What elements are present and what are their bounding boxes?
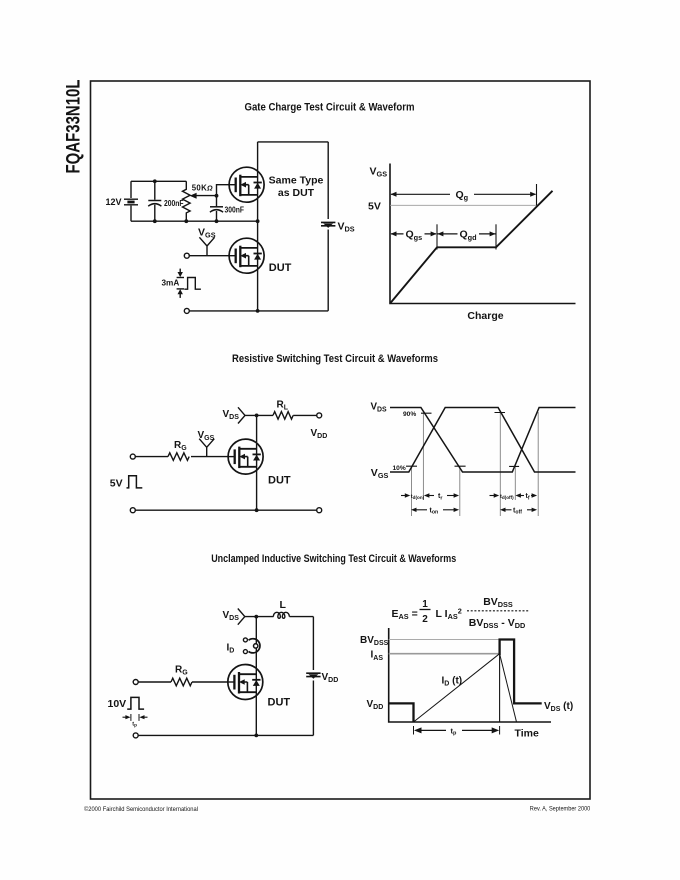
wire: drain bus [255, 617, 257, 736]
5V pulse symbol [127, 476, 143, 488]
svg-text:Rev. A, September 2000: Rev. A, September 2000 [530, 806, 591, 813]
junction dots bias rails [153, 179, 260, 312]
current source 3mA annotation [177, 269, 201, 298]
battery V_DS on right bus [321, 222, 335, 228]
svg-text:DUT: DUT [269, 262, 292, 274]
svg-text:tp: tp [132, 722, 137, 728]
3mA arrowheads [178, 272, 183, 277]
current loop ID around drain bus [249, 639, 260, 653]
V_DS probe fork [238, 407, 245, 423]
wire: inductor to right bus [289, 616, 313, 618]
t_p span arrow [416, 729, 497, 731]
wire: pot wiper to gate of upper MOSFET [217, 185, 230, 196]
MOSFET Q2 DUT [229, 238, 265, 273]
terminal gate input [184, 253, 189, 258]
MOSFET DUT circuit3 [227, 665, 262, 700]
MOSFET Q1 same type as DUT [229, 167, 265, 202]
axes [390, 164, 576, 304]
svg-text:300nF: 300nF [225, 204, 245, 214]
10% tick marks [406, 465, 519, 467]
pot wiper arrowhead [190, 193, 197, 199]
terminal bottom input [184, 308, 189, 313]
svg-text:5V: 5V [110, 477, 123, 489]
resistor RG zigzag [171, 678, 192, 686]
junction dot drain node [254, 615, 258, 619]
I_D(t) ramp [414, 654, 500, 722]
svg-text:1: 1 [422, 599, 428, 610]
battery 12V [124, 199, 138, 205]
svg-text:L: L [280, 599, 287, 611]
tick Qgd [495, 224, 497, 249]
wire: bottom rail [135, 509, 317, 511]
IAS level line [389, 653, 500, 655]
pulse left edge thin [499, 654, 501, 722]
gate charge curve [390, 191, 553, 304]
svg-text:10V: 10V [108, 698, 127, 710]
svg-text:FQAF33N10L: FQAF33N10L [64, 79, 85, 173]
battery VDD on right bus [306, 673, 320, 679]
t_r arrows [424, 493, 430, 497]
V_DS(t) thick trace [389, 640, 542, 723]
Qg span arrow [391, 193, 536, 195]
Qgs span arrow [391, 233, 436, 235]
t_p arrows [123, 716, 128, 718]
terminal bottom right [317, 508, 322, 513]
capacitor 200nF [148, 201, 161, 207]
svg-text:90%: 90% [403, 411, 416, 418]
svg-text:tf: tf [526, 493, 530, 501]
terminal bottom left [133, 733, 138, 738]
t_d(off) arrow [490, 495, 496, 497]
junction dot drain node [255, 414, 259, 418]
svg-text:Unclamped Inductive Switching: Unclamped Inductive Switching Test Circu… [211, 553, 456, 565]
axes [389, 628, 551, 722]
t_off arrow [500, 508, 506, 512]
V_GS probe fork [199, 439, 214, 457]
V_DS waveform trace [390, 408, 576, 473]
wire: gate of DUT [189, 255, 229, 257]
svg-text:ton: ton [430, 507, 439, 515]
border frame of figure area [91, 81, 591, 799]
dashed fraction bar [467, 610, 530, 612]
BVDSS level line [389, 639, 500, 641]
t_d(on) arrow [401, 495, 407, 497]
svg-text:5V: 5V [368, 201, 381, 213]
t_f arrows [515, 493, 521, 497]
wire: RL to VDD terminal [293, 414, 317, 416]
wire: bottom rail [189, 310, 328, 312]
terminal gate in [133, 680, 138, 685]
MOSFET DUT circuit2 [228, 439, 264, 474]
terminal VDD [317, 413, 322, 418]
svg-text:©2000 Fairchild Semiconductor: ©2000 Fairchild Semiconductor Internatio… [84, 806, 198, 813]
wire: 12V battery leads [130, 181, 132, 221]
wire: right bus [312, 617, 314, 736]
svg-text:12V: 12V [105, 197, 121, 207]
wire: gate input to DUT gate [138, 681, 228, 683]
V_DS probe fork [238, 609, 245, 625]
capacitor 300nF [210, 207, 223, 212]
t_p width ticks [131, 714, 139, 721]
wire: drain node to inductor [245, 616, 274, 618]
svg-text:Gate Charge Test Circuit & Wav: Gate Charge Test Circuit & Waveform [245, 101, 415, 113]
t_on arrow [411, 508, 417, 512]
svg-text:toff: toff [513, 507, 522, 515]
wire: bottom rail [138, 734, 313, 736]
resistor RL zigzag [273, 412, 293, 420]
wire: drain node to RL [245, 414, 273, 416]
wire: drain bus [256, 415, 258, 510]
wire: 200nF cap leads [154, 181, 156, 221]
wire: 300nF cap leads [216, 196, 218, 222]
inductor L coil [273, 612, 289, 618]
Qgd span arrow [438, 233, 496, 235]
svg-text:Charge: Charge [467, 310, 503, 322]
svg-text:td(off): td(off) [500, 494, 514, 500]
5V level line [390, 204, 538, 206]
resistor RG zigzag [168, 453, 189, 461]
svg-text:3mA: 3mA [162, 279, 180, 288]
timing hairlines [412, 412, 539, 516]
svg-text:td(on): td(on) [411, 494, 425, 500]
tick Qg end [536, 184, 538, 205]
svg-text:as DUT: as DUT [278, 187, 315, 199]
svg-text:tr: tr [438, 493, 442, 501]
90% tick marks [421, 412, 505, 415]
junction dot source node [255, 508, 259, 512]
svg-text:Resistive Switching Test Circu: Resistive Switching Test Circuit & Wavef… [232, 353, 438, 365]
svg-text:50KΩ: 50KΩ [192, 184, 213, 193]
V_GS probe fork [199, 237, 214, 255]
I_D decay line [500, 654, 517, 722]
wire: bottom rail of bias group to drain bus [131, 220, 258, 222]
10V pulse symbol [127, 697, 144, 709]
potentiometer 50K [183, 181, 217, 221]
wire: drain-source bus through both MOSFETs [257, 142, 259, 311]
svg-text:DUT: DUT [268, 474, 291, 486]
svg-text:10%: 10% [393, 465, 406, 472]
svg-text:Time: Time [515, 727, 539, 739]
junction dot source node [254, 734, 258, 738]
terminal gate in [130, 454, 135, 459]
svg-text:200nF: 200nF [164, 198, 184, 208]
wire: gate input to DUT gate [135, 456, 228, 458]
wire: top wire to right bus [258, 141, 329, 143]
svg-text:DUT: DUT [268, 697, 291, 709]
wire: right bus [327, 142, 329, 311]
V_GS waveform trace [390, 408, 576, 473]
tick Qgs [436, 224, 438, 249]
t_p ticks [414, 726, 500, 735]
svg-text:2: 2 [422, 614, 428, 625]
wire: top rail of bias group [131, 180, 186, 182]
terminal bottom left [130, 508, 135, 513]
svg-text:Same Type: Same Type [269, 175, 324, 187]
